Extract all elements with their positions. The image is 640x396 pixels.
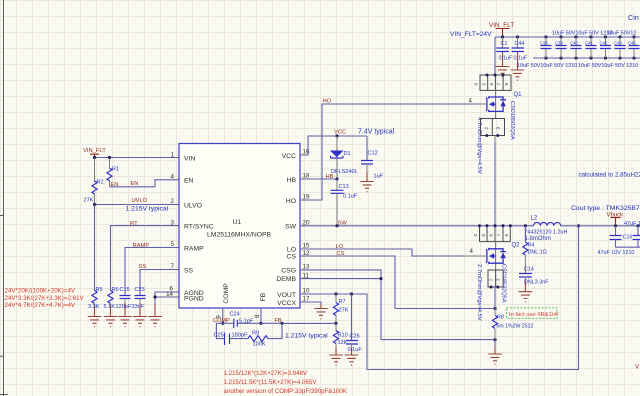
svg-text:13: 13 xyxy=(303,263,310,270)
wire UVLO to R5 xyxy=(94,205,96,291)
svg-text:0: 0 xyxy=(474,83,479,86)
U1 right pin numbers xyxy=(303,149,310,303)
svg-text:14: 14 xyxy=(166,291,173,298)
svg-text:6: 6 xyxy=(489,83,494,86)
transistor Q1 source pin block xyxy=(481,119,505,138)
wire HO net xyxy=(300,104,478,200)
svg-text:C24: C24 xyxy=(230,311,240,317)
svg-text:In fact use 0R&1nF: In fact use 0R&1nF xyxy=(509,312,559,318)
svg-text:C45: C45 xyxy=(628,41,636,46)
capacitor C44 0.1uF xyxy=(512,37,528,70)
wire CSG net xyxy=(300,270,495,340)
ground (C26) xyxy=(345,355,359,365)
wire COMP pin9 stub xyxy=(222,308,224,323)
svg-text:CSG: CSG xyxy=(281,267,296,274)
wire FB net xyxy=(282,322,336,324)
svg-text:5.1pF: 5.1pF xyxy=(239,319,254,325)
svg-text:VIN: VIN xyxy=(184,155,195,162)
capacitor bank C39 xyxy=(555,37,567,58)
ground (C15) xyxy=(118,317,132,327)
svg-text:6: 6 xyxy=(489,234,494,237)
svg-text:10uF 50V10uF 50V 1210: 10uF 50V10uF 50V 1210 xyxy=(578,63,638,69)
resistor R7 27K xyxy=(333,294,348,323)
wire HB net xyxy=(300,178,337,180)
svg-text:SS: SS xyxy=(184,267,194,274)
svg-text:5.1K: 5.1K xyxy=(104,304,116,310)
svg-text:R2: R2 xyxy=(97,179,104,185)
svg-text:L2: L2 xyxy=(531,215,538,221)
svg-text:SS: SS xyxy=(139,264,147,270)
power port VIN_FLT (top) xyxy=(489,22,514,37)
svg-text:4: 4 xyxy=(470,248,474,255)
capacitor C14 DNL xyxy=(519,267,549,292)
wire COMP lower loop xyxy=(216,323,282,338)
svg-text:5: 5 xyxy=(171,241,175,248)
svg-text:27K: 27K xyxy=(84,198,94,204)
resistor R2 xyxy=(84,159,104,205)
svg-text:R4: R4 xyxy=(528,242,535,248)
wire SS net xyxy=(140,270,179,296)
svg-text:ULVO: ULVO xyxy=(184,202,202,209)
capacitor bank C45 xyxy=(628,37,640,58)
svg-text:1.8mOhm: 1.8mOhm xyxy=(525,236,551,242)
svg-text:3.3K: 3.3K xyxy=(88,304,100,310)
svg-text:R9: R9 xyxy=(252,330,259,336)
wire DEMB net xyxy=(300,278,381,280)
power port VIN_FLT (left) xyxy=(83,148,106,158)
svg-text:another version of COMP:33pF/3: another version of COMP:33pF/390pF&100K xyxy=(224,388,348,395)
svg-text:24V*20K/(100K+20K)=4V: 24V*20K/(100K+20K)=4V xyxy=(5,288,76,295)
ground (VCCX) xyxy=(314,309,328,319)
svg-text:EN: EN xyxy=(184,177,194,184)
ground (C44) xyxy=(511,70,525,80)
capacitor C15 xyxy=(116,287,132,317)
U1 left pin names xyxy=(184,155,214,302)
svg-text:calculated to 2.85uH22A,: calculated to 2.85uH22A, xyxy=(579,172,640,179)
svg-text:10uF 50V12: 10uF 50V12 xyxy=(607,31,636,37)
svg-text:EN: EN xyxy=(111,182,119,188)
svg-text:UVLO: UVLO xyxy=(132,198,148,204)
svg-text:2.7mOhm@Vgs=4.5V: 2.7mOhm@Vgs=4.5V xyxy=(476,264,482,321)
svg-text:24V*4.7K/(27K+4.7K)=4V: 24V*4.7K/(27K+4.7K)=4V xyxy=(5,302,76,309)
wire VIN_FLT top rail xyxy=(495,37,640,75)
capacitor C13 xyxy=(331,179,358,226)
svg-text:C44: C44 xyxy=(515,41,525,47)
wire SW net xyxy=(300,225,534,227)
inductor L2 xyxy=(524,215,568,242)
svg-text:7: 7 xyxy=(497,234,502,237)
svg-text:PGND: PGND xyxy=(184,295,204,302)
svg-text:SW: SW xyxy=(338,221,348,227)
svg-text:100K: 100K xyxy=(253,342,266,348)
capacitor C12 xyxy=(361,136,384,182)
node VIN junctions xyxy=(93,156,96,159)
wire RAMP net xyxy=(125,248,179,296)
wire VCC net (pin16) xyxy=(300,136,367,155)
ground (R5) xyxy=(88,317,102,327)
capacitor C1 0.1uF xyxy=(496,37,513,66)
ground (C23) xyxy=(133,317,147,327)
svg-text:Cin ty: Cin ty xyxy=(628,13,640,22)
op-amp U1 LM25116 body xyxy=(179,144,300,309)
svg-text:10uF 50V10uF 50V 1210: 10uF 50V10uF 50V 1210 xyxy=(552,31,612,37)
svg-text:3: 3 xyxy=(496,127,501,130)
svg-text:2: 2 xyxy=(171,198,175,205)
svg-text:R1: R1 xyxy=(112,166,119,172)
svg-text:C12: C12 xyxy=(368,151,378,157)
ground (C1) xyxy=(496,67,510,77)
svg-text:C43: C43 xyxy=(614,41,622,46)
svg-text:27K: 27K xyxy=(339,308,349,314)
svg-text:HB: HB xyxy=(326,174,334,180)
wire Vbuck rail after L2 xyxy=(561,225,640,227)
ground (C14) xyxy=(519,292,533,302)
svg-text:VOUT: VOUT xyxy=(277,292,296,299)
svg-text:8: 8 xyxy=(504,83,509,86)
wire RT net xyxy=(111,226,180,291)
wire UVLO net xyxy=(95,204,180,206)
svg-text:CSD18502Q5A: CSD18502Q5A xyxy=(509,101,515,140)
svg-text:C14: C14 xyxy=(524,267,534,273)
svg-text:33nF: 33nF xyxy=(132,304,145,310)
ground (AGND/PGND) xyxy=(148,317,162,327)
wire Q2 source to CS node xyxy=(494,287,496,309)
ground (C12) xyxy=(360,182,374,192)
capacitor C16 47uF xyxy=(598,226,640,256)
svg-text:VIN_FLT: VIN_FLT xyxy=(83,148,106,154)
ground (R8) xyxy=(494,340,496,347)
svg-text:1.215/11.5K*(11.5K+27K)=4.065V: 1.215/11.5K*(11.5K+27K)=4.065V xyxy=(224,379,318,386)
svg-text:0: 0 xyxy=(473,234,478,237)
svg-text:5m 1%2W 2512: 5m 1%2W 2512 xyxy=(497,324,534,330)
resistor R4 DNL xyxy=(523,226,547,274)
resistor R1 xyxy=(107,158,119,187)
diode D1 DFLS240L xyxy=(330,136,358,179)
wire Q1 source to SW xyxy=(494,136,496,143)
svg-text:R5: R5 xyxy=(96,287,103,293)
U1 right pin names xyxy=(276,153,296,307)
svg-text:5: 5 xyxy=(481,234,486,237)
svg-text:R7: R7 xyxy=(339,299,346,305)
svg-text:SW: SW xyxy=(285,223,297,230)
svg-text:DEMB: DEMB xyxy=(276,276,296,283)
ground (R6) xyxy=(104,317,118,327)
wire FB pin8 stub xyxy=(260,308,262,323)
capacitor C17 47uF (edge) xyxy=(624,221,640,247)
node CS/R8 top junction xyxy=(493,307,496,310)
svg-text:5: 5 xyxy=(482,83,487,86)
svg-text:DNL3.3nF: DNL3.3nF xyxy=(524,280,549,286)
capacitor bank C42 xyxy=(600,37,612,58)
power port Vbuck xyxy=(607,213,625,226)
svg-text:FB: FB xyxy=(260,292,267,301)
svg-text:C39: C39 xyxy=(555,41,563,46)
node R8 bottom junction xyxy=(493,338,496,341)
svg-text:HO: HO xyxy=(286,198,296,205)
svg-text:HO: HO xyxy=(323,99,332,105)
svg-text:CS: CS xyxy=(287,254,297,261)
svg-text:CS: CS xyxy=(337,251,345,257)
svg-text:RT/SYNC: RT/SYNC xyxy=(184,224,214,231)
wire AGND PGND xyxy=(155,292,179,304)
svg-text:4.7mOhm@Vgs=4.5V: 4.7mOhm@Vgs=4.5V xyxy=(476,117,482,174)
capacitor bank C43 xyxy=(614,37,626,58)
svg-text:3: 3 xyxy=(171,219,175,226)
capacitor bank C41 xyxy=(585,37,597,58)
svg-text:0.1uF: 0.1uF xyxy=(343,194,358,200)
wire pin8 to FB label xyxy=(261,322,282,324)
svg-text:RAMP: RAMP xyxy=(184,245,204,252)
svg-text:HB: HB xyxy=(287,177,297,184)
svg-text:RT: RT xyxy=(130,221,138,227)
svg-text:DFLS240L: DFLS240L xyxy=(331,169,358,175)
svg-text:D1: D1 xyxy=(344,151,351,157)
svg-text:0.1uF: 0.1uF xyxy=(499,56,513,62)
svg-text:VCC: VCC xyxy=(334,130,346,136)
svg-text:C25: C25 xyxy=(214,332,224,338)
svg-text:47uF 10V 1210: 47uF 10V 1210 xyxy=(598,250,635,256)
svg-text:Cout type : TMK325B7226K: Cout type : TMK325B7226K xyxy=(571,205,640,212)
svg-text:10uF 50V10uF 50V 1210: 10uF 50V10uF 50V 1210 xyxy=(517,63,577,69)
capacitor C24 5.1pF xyxy=(223,311,261,328)
resistor R5 xyxy=(88,287,103,317)
svg-text:RAMP: RAMP xyxy=(133,243,150,249)
svg-text:R10: R10 xyxy=(338,332,348,338)
ground (R10) xyxy=(329,355,343,365)
svg-text:0.1uF: 0.1uF xyxy=(514,56,528,62)
svg-text:DNL:1Ω: DNL:1Ω xyxy=(528,250,547,256)
wire input cap bank bottom rail xyxy=(533,57,640,59)
svg-text:180pF: 180pF xyxy=(232,333,248,339)
resistor R8 5m 1% 2W xyxy=(492,309,533,340)
svg-text:1uF: 1uF xyxy=(374,174,384,180)
svg-text:2: 2 xyxy=(484,127,489,130)
svg-text:U1: U1 xyxy=(233,219,242,226)
svg-text:COMP: COMP xyxy=(223,283,230,304)
svg-text:LM25116MHX/NOPB: LM25116MHX/NOPB xyxy=(207,231,272,238)
wire VOUT net xyxy=(300,226,579,370)
resistor R10 12K xyxy=(333,323,347,355)
svg-text:C13: C13 xyxy=(339,184,349,190)
svg-text:47uF 10V: 47uF 10V xyxy=(624,221,640,227)
transistor Q1 CSD18502Q5A xyxy=(486,90,522,139)
svg-text:4: 4 xyxy=(469,97,473,104)
svg-text:LO: LO xyxy=(336,244,344,250)
svg-text:EN: EN xyxy=(131,181,139,187)
svg-text:7.4V typical: 7.4V typical xyxy=(358,129,395,136)
wire VCCX net xyxy=(300,302,321,305)
svg-text:1.215/12K*(12K+27K)=3.948V: 1.215/12K*(12K+27K)=3.948V xyxy=(224,370,308,377)
svg-text:C42: C42 xyxy=(600,41,608,46)
svg-text:C26: C26 xyxy=(350,334,360,340)
svg-text:C41: C41 xyxy=(585,41,593,46)
svg-text:R8: R8 xyxy=(497,314,504,320)
svg-text:2: 2 xyxy=(489,278,494,281)
capacitor C25 180pF xyxy=(214,332,248,345)
svg-text:FB: FB xyxy=(275,318,282,324)
transistor Q2 source pin block xyxy=(488,270,503,289)
svg-text:C1: C1 xyxy=(501,41,508,47)
resistor R9 100K xyxy=(248,330,268,347)
svg-text:VCC: VCC xyxy=(282,153,296,160)
svg-text:VIN_FLT: VIN_FLT xyxy=(489,22,514,29)
svg-text:C16: C16 xyxy=(623,235,633,241)
U1 left pin numbers xyxy=(166,151,174,297)
wire VIN net xyxy=(95,157,180,159)
svg-text:LO: LO xyxy=(287,247,296,254)
resistor R6 xyxy=(104,287,119,317)
svg-text:120pF: 120pF xyxy=(116,304,132,310)
annotation formulas bottom xyxy=(224,370,348,395)
wire CS net xyxy=(300,256,495,309)
svg-text:1.215V typical: 1.215V typical xyxy=(126,205,169,212)
svg-text:Q2: Q2 xyxy=(512,242,521,248)
svg-text:8: 8 xyxy=(504,234,509,237)
svg-text:744325120 1.2uH: 744325120 1.2uH xyxy=(525,230,568,236)
note box In fact use 0R&1nF xyxy=(507,308,560,319)
capacitor C23 xyxy=(132,287,146,317)
svg-text:C40: C40 xyxy=(570,41,578,46)
svg-text:C23: C23 xyxy=(135,287,145,293)
svg-text:C15: C15 xyxy=(120,287,130,293)
svg-text:1.215V typical: 1.215V typical xyxy=(285,332,328,339)
svg-text:1: 1 xyxy=(171,151,175,158)
svg-text:7: 7 xyxy=(171,263,175,270)
annotation divider formulas left xyxy=(5,288,85,310)
svg-text:Q1: Q1 xyxy=(514,92,523,98)
svg-text:24V*3.3K/(27K+3.3K)=2.61V: 24V*3.3K/(27K+3.3K)=2.61V xyxy=(5,295,85,302)
svg-text:4: 4 xyxy=(171,173,175,180)
svg-text:V: V xyxy=(635,365,639,371)
capacitor C26 xyxy=(346,294,362,355)
svg-text:C38: C38 xyxy=(540,41,548,46)
svg-text:VCCX: VCCX xyxy=(277,300,296,307)
svg-text:7: 7 xyxy=(497,83,502,86)
svg-text:R6: R6 xyxy=(112,287,119,293)
svg-text:0.1uF: 0.1uF xyxy=(348,347,363,353)
capacitor bank C38 xyxy=(540,37,552,58)
transistor Q2 CSD18532Q5A xyxy=(486,242,520,303)
wire LO net xyxy=(300,249,464,256)
wire EN net xyxy=(110,180,180,187)
svg-text:3: 3 xyxy=(496,278,501,281)
transistor Q1 drain pin header xyxy=(474,74,512,91)
sheet border xyxy=(0,0,8,396)
svg-text:VIN_FLT=24V: VIN_FLT=24V xyxy=(450,31,492,38)
capacitor bank C40 xyxy=(570,37,582,58)
transistor Q2 drain pin comb xyxy=(473,224,512,241)
